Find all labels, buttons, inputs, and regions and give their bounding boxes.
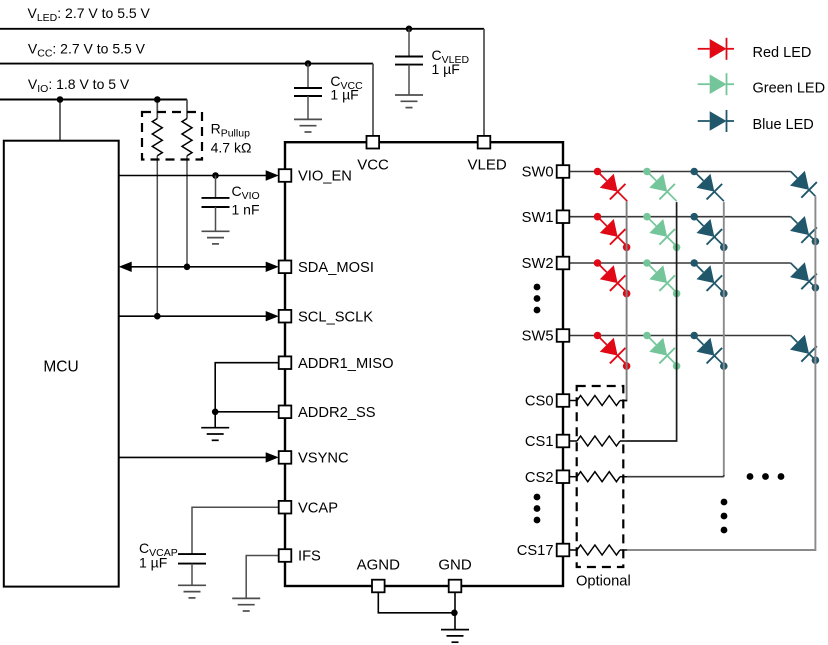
svg-text:Optional: Optional — [576, 574, 631, 590]
svg-text:1 µF: 1 µF — [330, 87, 358, 103]
svg-text:AGND: AGND — [357, 557, 401, 574]
svg-text:ADDR1_MISO: ADDR1_MISO — [298, 356, 394, 372]
svg-text:CS0: CS0 — [525, 394, 554, 410]
svg-text:VSYNC: VSYNC — [298, 451, 349, 467]
svg-text:IFS: IFS — [298, 549, 321, 565]
svg-text:VIO_EN: VIO_EN — [298, 169, 352, 185]
svg-text:SDA_MOSI: SDA_MOSI — [298, 260, 374, 276]
svg-text:SW2: SW2 — [522, 256, 554, 272]
svg-text:MCU: MCU — [43, 359, 78, 376]
svg-text:Green LED: Green LED — [753, 80, 826, 96]
svg-text:SW5: SW5 — [522, 329, 554, 345]
svg-text:VLED: VLED — [468, 157, 507, 174]
svg-text:Red LED: Red LED — [753, 45, 812, 61]
svg-text:Blue LED: Blue LED — [753, 117, 814, 133]
svg-text:ADDR2_SS: ADDR2_SS — [298, 405, 376, 421]
svg-text:1 µF: 1 µF — [432, 61, 460, 77]
svg-text:CS1: CS1 — [525, 434, 554, 450]
svg-text:GND: GND — [438, 557, 472, 574]
svg-text:CS17: CS17 — [517, 543, 554, 559]
svg-text:1 µF: 1 µF — [139, 555, 167, 571]
svg-text:SW0: SW0 — [522, 165, 554, 181]
svg-text:CS2: CS2 — [525, 470, 554, 486]
svg-text:4.7 kΩ: 4.7 kΩ — [211, 140, 252, 156]
svg-text:1 nF: 1 nF — [232, 202, 260, 218]
svg-text:VCAP: VCAP — [298, 500, 338, 516]
svg-text:SW1: SW1 — [522, 210, 554, 226]
svg-text:SCL_SCLK: SCL_SCLK — [298, 309, 373, 325]
svg-text:VCC: VCC — [357, 157, 389, 174]
